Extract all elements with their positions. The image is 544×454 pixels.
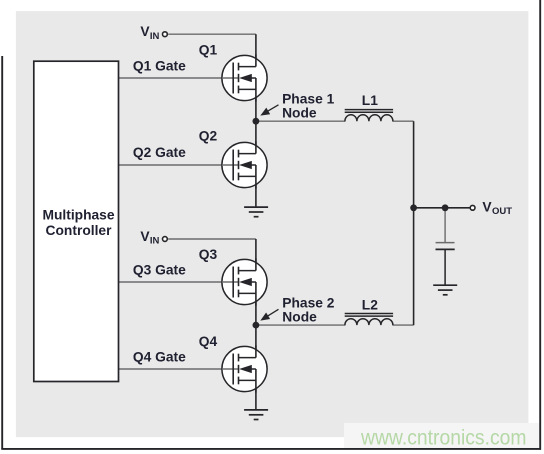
svg-text:Q4: Q4 [199,334,218,349]
svg-text:Node: Node [282,106,317,121]
svg-text:Controller: Controller [46,223,113,238]
svg-text:Q4 Gate: Q4 Gate [133,349,186,364]
svg-text:Q1: Q1 [199,43,218,58]
svg-text:Multiphase: Multiphase [42,208,114,223]
svg-text:IN: IN [150,31,160,42]
svg-text:Phase 1: Phase 1 [282,92,334,107]
svg-text:Phase 2: Phase 2 [282,295,334,310]
svg-text:V: V [482,199,492,214]
svg-text:Q3 Gate: Q3 Gate [133,262,186,277]
svg-text:Node: Node [282,310,317,325]
svg-text:Q2: Q2 [199,129,218,144]
svg-text:L1: L1 [362,93,378,108]
svg-text:Q3: Q3 [199,247,218,262]
svg-text:Q2 Gate: Q2 Gate [133,145,186,160]
svg-text:Q1 Gate: Q1 Gate [133,58,186,73]
svg-text:V: V [140,229,150,244]
svg-text:OUT: OUT [492,206,512,217]
svg-text:IN: IN [150,236,160,247]
svg-text:V: V [140,24,150,39]
svg-text:www.cntronics.com: www.cntronics.com [360,426,526,450]
svg-text:L2: L2 [362,298,378,313]
